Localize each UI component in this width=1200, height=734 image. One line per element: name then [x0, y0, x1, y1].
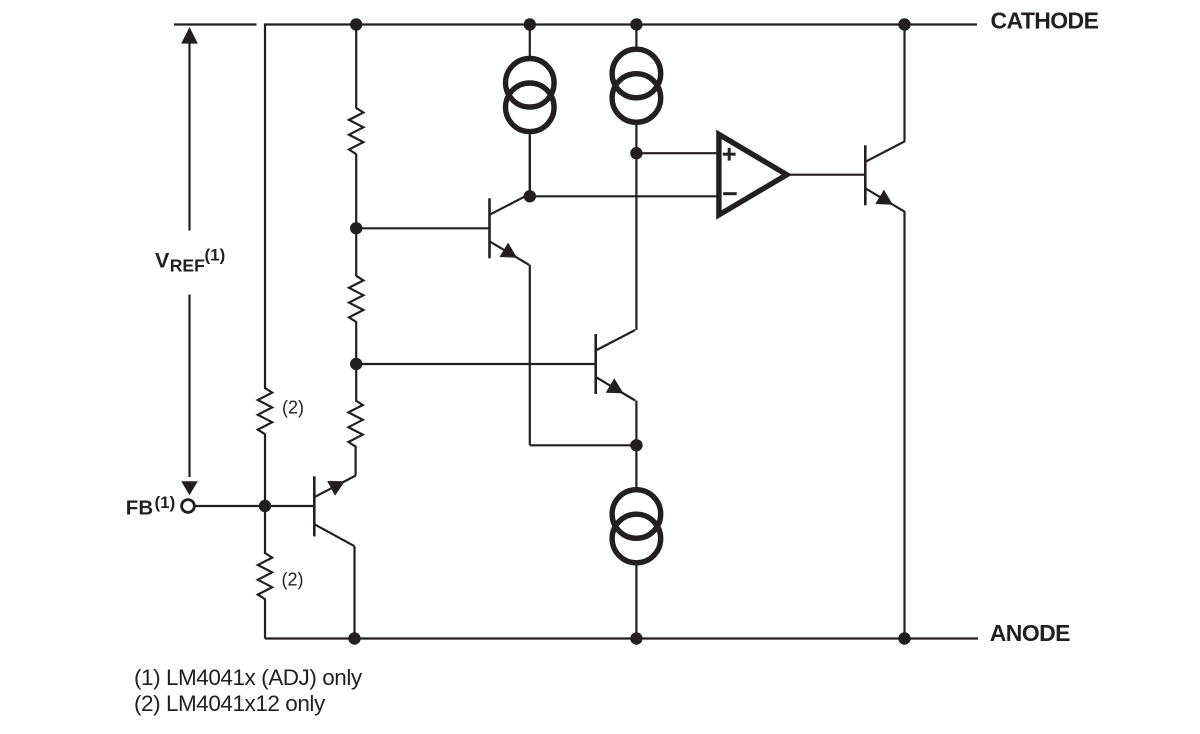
wire op-amp output	[789, 174, 866, 176]
wire R2 to node	[355, 321, 357, 364]
wire cathode rail	[265, 23, 977, 25]
wire FB to node	[195, 505, 265, 507]
svg-text:REF: REF	[170, 256, 205, 276]
resistor R1 top	[349, 108, 363, 154]
wire CS3 bottom	[635, 563, 637, 639]
svg-text:(2) LM4041x12 only: (2) LM4041x12 only	[134, 691, 326, 716]
svg-text:(2): (2)	[282, 398, 304, 418]
svg-text:V: V	[155, 249, 170, 273]
resistor R3 lower	[348, 400, 362, 446]
wire R2-R3 stub	[355, 364, 357, 401]
transistor Q3	[314, 476, 355, 547]
node op-amp plus input	[630, 147, 642, 159]
wire Q2 collector up	[635, 153, 637, 330]
wire plus input	[636, 152, 719, 154]
node top rail / Q4	[898, 18, 910, 30]
node R2-R3 / Q2 base	[350, 358, 362, 370]
svg-text:(1): (1)	[205, 245, 226, 264]
wire top rail to R1	[355, 25, 357, 109]
current source CS2	[612, 49, 661, 98]
svg-text:ANODE: ANODE	[990, 620, 1070, 646]
wire Q2 emitter down	[635, 401, 637, 446]
wire Q3 collector down	[353, 546, 355, 638]
node Q2 emitter / CS3	[630, 439, 642, 451]
resistor (2) lower	[258, 553, 272, 599]
wire CS2 bottom	[635, 123, 637, 154]
node FB junction	[259, 500, 271, 512]
resistor (2) upper	[258, 388, 272, 434]
current source CS1	[506, 59, 555, 108]
node top rail / CS1	[524, 18, 536, 30]
svg-text:(1): (1)	[155, 493, 176, 512]
node Q1 collector / op-amp minus	[524, 190, 536, 202]
wire Q4 emitter down	[903, 212, 905, 639]
transistor Q4	[865, 141, 905, 212]
current source CS3	[612, 490, 661, 539]
wire Q1 emitter down	[529, 265, 531, 446]
wire CS3 top stub	[635, 445, 637, 490]
wire anode rail	[265, 637, 978, 639]
wire Q3 emitter to R3	[355, 446, 357, 476]
wire Vref stem upper	[188, 42, 190, 231]
wire CS1 bottom	[529, 132, 531, 197]
wire CS1 top stub	[529, 25, 531, 60]
svg-text:FB: FB	[126, 497, 153, 520]
resistor R2 middle	[349, 276, 363, 322]
transistor Q2	[596, 330, 636, 401]
wire CS2 top stub	[635, 25, 637, 51]
Vref arrow up	[181, 27, 198, 44]
wire Q4 collector up	[903, 25, 905, 142]
wire node to R2	[355, 228, 357, 276]
op-amp U1	[719, 134, 787, 215]
wire Q2 base	[356, 363, 596, 365]
wire left column upper	[264, 23, 266, 389]
wire left column lower	[264, 599, 266, 639]
node Q3 collector / anode	[348, 632, 360, 644]
svg-text:(2): (2)	[282, 570, 304, 590]
node top rail / R1	[350, 18, 362, 30]
node R1-R2 / Q1 base	[350, 222, 362, 234]
transistor Q1	[490, 194, 530, 264]
wire R1 to node	[355, 154, 357, 229]
wire Q1 base	[356, 227, 489, 229]
svg-text:CATHODE: CATHODE	[991, 8, 1099, 34]
wire minus input	[530, 195, 719, 197]
node Q4 / anode	[898, 632, 910, 644]
wire Q3 base	[265, 505, 314, 507]
wire to node Q2 emitter	[530, 444, 637, 446]
wire left column middle	[264, 434, 266, 555]
node CS3 / anode	[630, 632, 642, 644]
svg-text:(1) LM4041x (ADJ) only: (1) LM4041x (ADJ) only	[134, 665, 363, 690]
Vref arrow down	[181, 481, 198, 495]
terminal FB open circle	[182, 500, 195, 513]
wire Vref top tick	[174, 23, 257, 25]
wire Vref stem lower	[188, 295, 190, 478]
wire Q1 collector up	[529, 133, 531, 194]
node top rail / CS2	[630, 18, 642, 30]
